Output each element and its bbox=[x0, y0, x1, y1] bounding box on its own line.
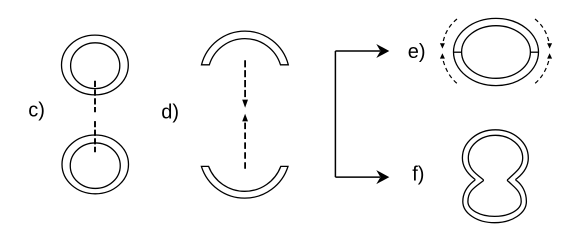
svg-text:e): e) bbox=[408, 41, 426, 63]
down arrowhead left bbox=[440, 43, 445, 48]
branch connector vertical line bbox=[334, 51, 336, 177]
rotation arrows left of ellipse bbox=[440, 19, 458, 85]
up arrowhead right bbox=[547, 53, 552, 58]
budded peanut (f) outer contour bbox=[462, 130, 528, 223]
vesicle ring top (c) outer bbox=[62, 35, 129, 95]
branch arrow to f bbox=[335, 176, 380, 178]
dashed arrow pointing down (d) bbox=[244, 60, 246, 97]
lower-left dashed arc bbox=[443, 61, 458, 85]
open membrane arc bottom (d) bbox=[201, 166, 288, 198]
upper-right dashed arc bbox=[535, 19, 549, 41]
branch arrow to e bbox=[335, 50, 380, 52]
budded peanut (f) inner contour bbox=[468, 135, 523, 216]
down arrowhead right bbox=[547, 43, 552, 48]
dashed axis through top ring bottom bbox=[94, 81, 96, 113]
vesicle ring top (c) inner bbox=[71, 43, 120, 89]
svg-text:d): d) bbox=[161, 101, 179, 123]
seam line left bbox=[454, 51, 462, 53]
fused ellipse (e) outer bbox=[454, 18, 539, 85]
up arrowhead left bbox=[440, 53, 445, 58]
upper-left dashed arc bbox=[443, 19, 457, 41]
vesicle ring bottom (c) inner bbox=[70, 143, 120, 189]
dashed arrow pointing up (d) bbox=[242, 114, 248, 122]
open membrane arc top (d) bbox=[202, 31, 289, 65]
vesicle ring bottom (c) outer bbox=[62, 135, 129, 194]
fused ellipse (e) inner bbox=[462, 26, 531, 79]
rotation arrows right of ellipse bbox=[534, 19, 552, 85]
svg-text:c): c) bbox=[28, 100, 45, 122]
lower-right dashed arc bbox=[534, 61, 549, 85]
dashed axis through bottom ring top bbox=[94, 121, 96, 152]
seam line right bbox=[530, 51, 538, 53]
svg-text:f): f) bbox=[412, 163, 424, 185]
